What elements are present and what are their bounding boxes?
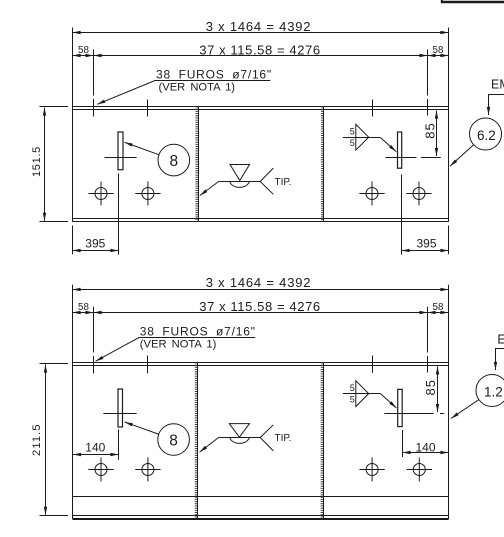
- balloon 8 leader: [125, 142, 159, 154]
- tick x147 at plate edge: [147, 100, 149, 117]
- svg-text:395: 395: [416, 237, 436, 251]
- plate P1 bottom edge outer: [73, 221, 449, 223]
- dimension 151.5 extension top: [40, 106, 69, 108]
- plate P1 right edge / extension: [448, 28, 450, 222]
- dimension 37x115.58 bottom main span: [94, 312, 428, 314]
- extension line x93 upper: [93, 50, 95, 96]
- plate P2 right edge: [448, 285, 450, 519]
- dimension 3x1464 top line: [73, 32, 449, 34]
- dimension 395 left line: [73, 250, 119, 252]
- stiffener bar B4: [398, 389, 403, 426]
- dimension 151.5 extension bottom: [40, 221, 69, 223]
- svg-text:37 x 115.58 = 4276: 37 x 115.58 = 4276: [199, 43, 321, 58]
- stiffener bar B3: [118, 389, 123, 427]
- frame corner top-right: [441, 0, 504, 3]
- weld symbol W3 reference line: [219, 437, 261, 439]
- dimension 37x115.58 right 58 span: [428, 55, 449, 57]
- splice seam S3 line: [197, 363, 199, 519]
- svg-text:38 FUROS ø7/16": 38 FUROS ø7/16": [140, 324, 256, 338]
- hole H5: [88, 458, 113, 482]
- svg-text:58: 58: [78, 302, 89, 313]
- plate P1 top edge inner: [73, 109, 449, 111]
- svg-text:85: 85: [422, 122, 437, 138]
- bar B1 lower extension: [118, 174, 120, 255]
- balloon 8b leader: [125, 422, 159, 434]
- plate P2 top edge outer: [73, 362, 449, 364]
- svg-text:58: 58: [433, 45, 444, 56]
- plate P1 top edge outer: [73, 106, 449, 108]
- dimension 211.5 extension top: [40, 363, 69, 365]
- plate P1 left edge / extension: [72, 28, 74, 222]
- extension line x93 bottom upper: [93, 307, 95, 353]
- bar B2 centerline dash: [421, 157, 441, 159]
- weld symbol W3 triangle: [229, 424, 249, 438]
- svg-text:1.2: 1.2: [484, 384, 503, 399]
- plate P2 bottom edge outer: [73, 518, 449, 520]
- extension tick x93 at plate edge: [93, 99, 95, 117]
- dimension 37x115.58 bottom left 58 span: [73, 312, 94, 314]
- svg-text:140: 140: [85, 441, 105, 455]
- weld symbol W3 tail: [260, 425, 273, 451]
- dimension 37x115.58 line left 58 span: [73, 55, 94, 57]
- svg-text:6.2: 6.2: [477, 128, 496, 143]
- balloon 8b circle: [158, 424, 190, 456]
- bar B2 centerline: [385, 157, 416, 159]
- weld symbol W4 reference line: [343, 393, 380, 395]
- dimension 85 bottom line: [437, 366, 439, 412]
- svg-text:3 x 1464 = 4392: 3 x 1464 = 4392: [206, 19, 312, 34]
- splice seam S1 serration: [195, 107, 198, 222]
- svg-text:85: 85: [423, 379, 438, 395]
- dimension 211.5 extension bottom: [40, 515, 69, 517]
- plate P1 bottom edge inner: [73, 218, 449, 220]
- svg-text:5: 5: [350, 394, 355, 404]
- splice seam S4 line: [323, 363, 325, 519]
- extension tick x427 at plate edge: [427, 99, 429, 116]
- svg-text:5: 5: [350, 383, 355, 393]
- hole H6: [135, 458, 160, 482]
- label EM bottom leader: [496, 349, 504, 371]
- hole H2: [135, 182, 160, 206]
- weld symbol W1 reference line: [219, 181, 261, 183]
- splice seam S3 serration: [195, 363, 198, 519]
- bar B2 lower extension: [401, 175, 403, 255]
- hole H3: [359, 182, 384, 206]
- extension tick x427 bottom at plate edge: [427, 356, 429, 373]
- splice seam S2 serration: [321, 107, 324, 222]
- weld symbol W4 leader arrow: [380, 394, 396, 409]
- extension tick x93 bottom at plate edge: [93, 356, 95, 374]
- svg-text:8: 8: [169, 432, 178, 449]
- svg-text:5: 5: [350, 138, 355, 148]
- svg-text:(VER NOTA 1): (VER NOTA 1): [159, 81, 236, 93]
- svg-text:38 FUROS ø7/16": 38 FUROS ø7/16": [156, 67, 272, 81]
- svg-text:3 x 1464 = 4392: 3 x 1464 = 4392: [206, 275, 312, 290]
- hole H4: [406, 182, 431, 206]
- tick x147 bottom at plate edge: [147, 356, 149, 374]
- plate P2 top edge inner: [73, 365, 449, 367]
- dimension 37x115.58 main span: [94, 55, 428, 57]
- balloon 1.2 leader: [451, 400, 479, 419]
- dimension 140 left line: [73, 454, 119, 456]
- dimension 37x115.58 bottom right 58 span: [428, 312, 449, 314]
- plate P2 seam line: [73, 496, 449, 498]
- svg-text:395: 395: [85, 237, 105, 251]
- svg-text:58: 58: [78, 45, 89, 56]
- tick x372 at plate edge: [372, 100, 374, 117]
- balloon 6.2 circle: [470, 118, 502, 150]
- bar B4 centerline: [384, 413, 433, 415]
- weld symbol W1 leader arrow: [200, 182, 219, 196]
- weld symbol W1 triangle: [230, 165, 250, 181]
- weld symbol W4 triangle: [356, 381, 369, 407]
- weld symbol W2 triangle: [356, 124, 369, 150]
- note bottom underline leader: [96, 338, 256, 362]
- svg-text:37 x 115.58 = 4276: 37 x 115.58 = 4276: [199, 299, 321, 314]
- svg-text:8: 8: [169, 153, 178, 170]
- svg-text:EM: EM: [497, 332, 504, 346]
- hole H8: [407, 458, 432, 482]
- dimension 3x1464 bottom line: [73, 289, 449, 291]
- svg-text:140: 140: [415, 441, 435, 455]
- dimension 211.5 line: [45, 365, 47, 515]
- dimension 151.5 line: [44, 108, 46, 221]
- svg-text:151.5: 151.5: [31, 146, 43, 177]
- balloon 1.2 circle: [476, 375, 504, 407]
- balloon 6.2 leader: [450, 145, 474, 167]
- bar B3 centerline: [103, 413, 136, 415]
- bar B4 centerline dash: [440, 413, 444, 415]
- plate P2 bottom edge inner: [73, 515, 449, 517]
- svg-text:EME: EME: [491, 78, 504, 92]
- weld symbol W1 tail: [260, 168, 273, 194]
- tick x372 bottom at plate edge: [372, 356, 374, 373]
- splice seam S1 line: [198, 107, 200, 222]
- bar B3 lower extension: [118, 430, 120, 460]
- dimension 395 right line: [402, 250, 449, 252]
- svg-text:TIP.: TIP.: [275, 177, 292, 188]
- svg-text:58: 58: [433, 302, 444, 313]
- svg-text:5: 5: [350, 127, 355, 137]
- hole H1: [88, 182, 113, 206]
- svg-text:211.5: 211.5: [31, 423, 43, 456]
- dimension 140 right line: [403, 452, 449, 454]
- bar B1 centerline: [105, 157, 137, 159]
- dimension 85 line: [436, 111, 438, 157]
- weld symbol W3 leader arrow: [200, 438, 219, 453]
- hole H7: [359, 458, 384, 482]
- svg-text:TIP.: TIP.: [275, 433, 292, 444]
- plate P2 left edge: [72, 285, 74, 519]
- plate P1 right edge lower extension: [448, 226, 450, 255]
- extension line x427 upper: [427, 50, 429, 96]
- label EM top leader: [489, 95, 504, 116]
- plate P1 left edge lower extension: [72, 226, 74, 255]
- weld symbol W2 leader arrow: [380, 138, 396, 152]
- splice seam S2 line: [323, 107, 325, 222]
- note underline leader: [97, 81, 270, 105]
- weld symbol W1 arc: [230, 182, 249, 188]
- weld symbol W2 reference line: [343, 137, 380, 139]
- balloon 8 circle: [158, 144, 190, 176]
- bar B4 lower extension: [402, 430, 404, 457]
- extension line x427 bottom upper: [427, 307, 429, 353]
- stiffener bar B1: [118, 132, 123, 170]
- splice seam S4 serration: [321, 363, 324, 519]
- svg-text:(VER NOTA 1): (VER NOTA 1): [140, 338, 217, 350]
- stiffener bar B2: [398, 132, 402, 168]
- weld symbol W3 arc: [230, 438, 249, 444]
